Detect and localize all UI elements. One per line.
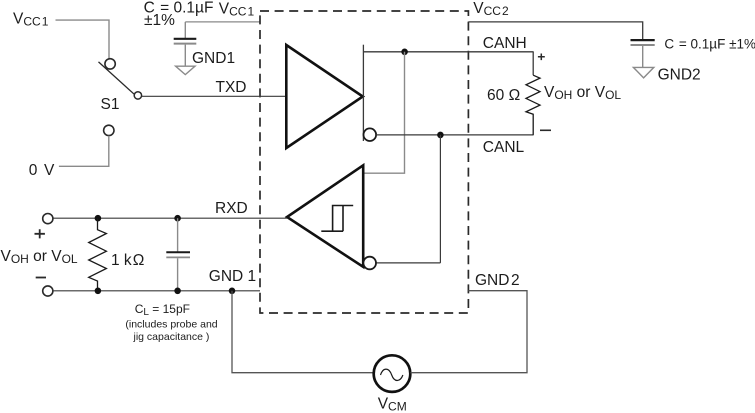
capacitor CL plates: [166, 251, 190, 253]
switch S1 blade: [99, 62, 135, 94]
wire CANL (driver bubble to resistor): [376, 134, 533, 136]
wire VCM to GND2 pin: [411, 291, 528, 373]
junction node bottom rail/CL: [174, 288, 181, 295]
RXD output terminal (open circle, +): [43, 214, 53, 224]
junction node RXD/capacitor CL: [174, 215, 181, 222]
junction node RXD/resistor R1: [95, 215, 102, 222]
wire VCC2 pin to capacitor C2: [468, 22, 642, 39]
wire VCM branch down from bottom rail: [232, 291, 374, 373]
wire RXD receiver apex to output terminal: [53, 217, 287, 219]
svg-text:GND 1: GND 1: [209, 268, 256, 285]
svg-text:GND1: GND1: [192, 50, 235, 67]
lower output terminal (open circle, −): [43, 286, 53, 296]
svg-text:VCM: VCM: [378, 395, 407, 413]
svg-text:0 V: 0 V: [29, 162, 56, 179]
svg-text:CL = 15pF: CL = 15pF: [135, 302, 190, 318]
svg-text:S1: S1: [101, 96, 120, 113]
wire 0V to switch S1 lower throw: [59, 136, 109, 167]
wire CANH corner down to resistor RL: [532, 52, 534, 75]
svg-text:VCC2: VCC2: [473, 0, 509, 18]
junction node on CANL: [437, 132, 444, 139]
wire bottom rail (terminal to GND1 pin): [53, 290, 260, 292]
label − (right): [540, 130, 551, 132]
svg-text:RXD: RXD: [215, 200, 248, 217]
ground GND1 symbol: [176, 66, 195, 74]
capacitor C1 plates: [174, 38, 197, 40]
switch S1 common terminal: [134, 92, 141, 99]
svg-text:VOH or VOL: VOH or VOL: [544, 84, 621, 102]
svg-text:(includes probe and: (includes probe and: [125, 319, 217, 331]
driver inverting output bubble: [364, 128, 377, 141]
svg-text:jig capacitance ): jig capacitance ): [133, 331, 210, 343]
switch S1 lower throw terminal: [104, 125, 114, 135]
svg-text:CANL: CANL: [483, 139, 525, 156]
svg-text:CANH: CANH: [483, 35, 527, 52]
switch S1 top throw terminal: [105, 59, 115, 69]
svg-text:±1%: ±1%: [144, 12, 175, 29]
svg-text:1 kΩ: 1 kΩ: [111, 252, 144, 269]
wire CANH junction down to receiver input: [363, 52, 405, 173]
label + (left): [35, 229, 45, 238]
svg-text:VCC1: VCC1: [219, 1, 255, 19]
ground GND2 symbol: [633, 67, 653, 78]
wire C1 top to VCC1 pin of DUT: [185, 21, 260, 23]
svg-text:C = 0.1µF ±1%: C = 0.1µF ±1%: [664, 37, 755, 52]
wire TXD switch common to driver input: [142, 95, 286, 97]
svg-text:VCC1: VCC1: [13, 10, 49, 28]
driver output stub wire (vertical): [362, 45, 364, 141]
capacitor C2 plates: [631, 39, 655, 41]
source VCM (sine source circle): [374, 355, 411, 392]
junction node on CANH: [401, 49, 408, 56]
svg-text:60 Ω: 60 Ω: [487, 87, 520, 104]
comparator receiver U1B (triangle): [287, 165, 363, 267]
DUT dashed box: [260, 11, 468, 313]
capacitor C1 bottom lead: [184, 45, 186, 66]
wire CANH (driver stub to resistor): [363, 51, 533, 53]
label + (right): [538, 54, 545, 61]
hysteresis symbol inside receiver: [321, 206, 353, 232]
wire VCC1 label to switch S1 top throw: [56, 20, 110, 58]
svg-text:VOH or VOL: VOH or VOL: [1, 248, 78, 266]
receiver inverting output bubble: [363, 257, 376, 270]
op-amp driver U1A (CAN driver triangle): [286, 45, 363, 148]
junction node bottom rail/VCM branch: [229, 288, 236, 295]
svg-text:TXD: TXD: [216, 79, 247, 96]
svg-text:GND2: GND2: [475, 272, 520, 289]
resistor R1 1kΩ: [89, 218, 107, 290]
capacitor C2 bottom lead: [642, 46, 644, 67]
wire CANL junction down to receiver bubble: [439, 135, 441, 263]
capacitor CL top lead: [177, 218, 179, 251]
svg-text:GND2: GND2: [658, 67, 701, 84]
capacitor C1 top lead: [184, 22, 186, 38]
resistor RL 60Ω: [526, 75, 540, 135]
junction node bottom rail/R1: [95, 288, 102, 295]
capacitor CL bottom lead: [177, 258, 179, 291]
label − (left): [36, 277, 46, 279]
